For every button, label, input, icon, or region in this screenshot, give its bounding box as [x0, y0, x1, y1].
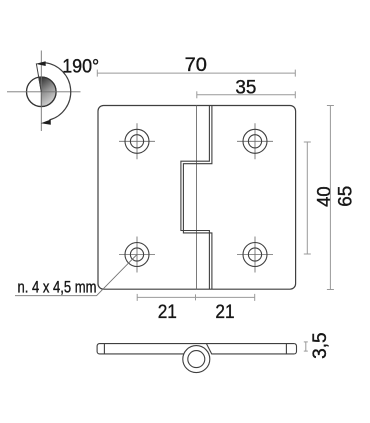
angle symbol: pivot circle [27, 77, 57, 107]
svg-text:21: 21 [215, 302, 234, 323]
angle symbol: top arrowhead [36, 61, 46, 66]
dimension 70: end ticks [96, 70, 98, 77]
svg-text:65: 65 [335, 186, 356, 207]
hinge pin centerline [196, 106, 198, 290]
dimension 65: line [329, 106, 331, 290]
dimension 65: end ticks [327, 105, 334, 107]
dimension 21+21: ticks [136, 294, 138, 301]
dimension 40: line [306, 142, 308, 254]
dimension 35: end ticks [196, 91, 198, 98]
svg-text:190°: 190° [62, 56, 99, 77]
hole bottom-right: circles [243, 243, 267, 267]
angle symbol: tilted radius line [36, 63, 41, 91]
hole top-right: crosshair [237, 123, 273, 159]
dimension 40: end ticks [304, 141, 311, 143]
hole bottom-left: crosshair [119, 237, 155, 273]
side view: right leaf taper line [207, 344, 212, 355]
hinge knuckle cut line (outer) [183, 106, 212, 290]
dimension 35: line [197, 94, 295, 96]
svg-text:70: 70 [185, 55, 207, 76]
side view: left end cap separator [103, 344, 105, 354]
svg-text:n. 4 x 4,5 mm: n. 4 x 4,5 mm [18, 278, 97, 296]
dimension 3,5: tick [304, 342, 308, 351]
angle symbol: vertical crosshair [40, 51, 42, 132]
hole top-left: crosshair [119, 123, 155, 159]
hinge plate outline (top view) [98, 106, 296, 290]
hole bottom-left: circles [125, 243, 149, 267]
hole top-right: circles [243, 129, 267, 153]
angle symbol: horizontal crosshair [7, 91, 81, 93]
svg-text:21: 21 [158, 302, 177, 323]
leader note: leader line to hole [97, 255, 137, 296]
dimension 21+21: line [137, 296, 255, 298]
angle symbol: 190° sweep arc [45, 63, 71, 120]
angle symbol: gray half-disc (leaf opened 190°) [39, 77, 56, 107]
angle symbol: bottom arrowhead [41, 120, 51, 125]
svg-text:3,5: 3,5 [310, 332, 331, 359]
hole bottom-right: crosshair [237, 237, 273, 273]
side view: right end rounded cap [294, 344, 296, 354]
dimension 70: line [97, 72, 295, 74]
leader note: underline [15, 295, 97, 297]
side view: right end cap separator [285, 344, 287, 354]
side view: bottom edge left leaf [100, 353, 185, 355]
side view: pin hole circle [188, 351, 205, 368]
side view: top edge (both leaves) [100, 343, 295, 345]
svg-text:40: 40 [315, 186, 336, 207]
side view: left end rounded cap [97, 344, 99, 354]
hinge knuckle cut line (inner) [181, 106, 210, 290]
hole top-left: circles [125, 129, 149, 153]
side view: bottom edge right leaf [212, 353, 294, 355]
side view: knuckle outer circle [183, 346, 210, 373]
svg-text:35: 35 [235, 77, 256, 98]
